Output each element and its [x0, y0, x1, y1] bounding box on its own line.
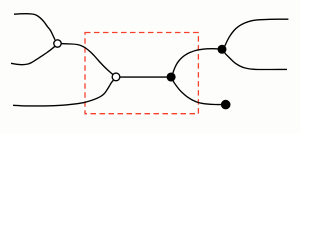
node V1 (white circle)	[54, 40, 61, 47]
node B1 (black circle)	[167, 72, 176, 81]
wire output 1 (node B2 to top right)	[224, 19, 289, 47]
wire node B1 down to node B3	[172, 79, 223, 105]
wire output 2 (node B2 to lower right)	[224, 51, 287, 70]
dashed marked region	[85, 33, 198, 114]
wire input 1 (top-left into node V1)	[14, 14, 55, 40]
wire node V1 to node V2	[61, 44, 115, 76]
wire input 3 (bottom-left into node V2)	[13, 80, 113, 106]
node B2 (black circle)	[218, 45, 227, 54]
wire input 2 (mid-left into node V1)	[11, 46, 55, 64]
node B3 (black circle)	[221, 100, 231, 110]
node V2 (white circle)	[112, 73, 120, 81]
wire node V2 to node B1 (horizontal)	[116, 76, 171, 78]
wire node B1 up to node B2	[172, 49, 219, 76]
